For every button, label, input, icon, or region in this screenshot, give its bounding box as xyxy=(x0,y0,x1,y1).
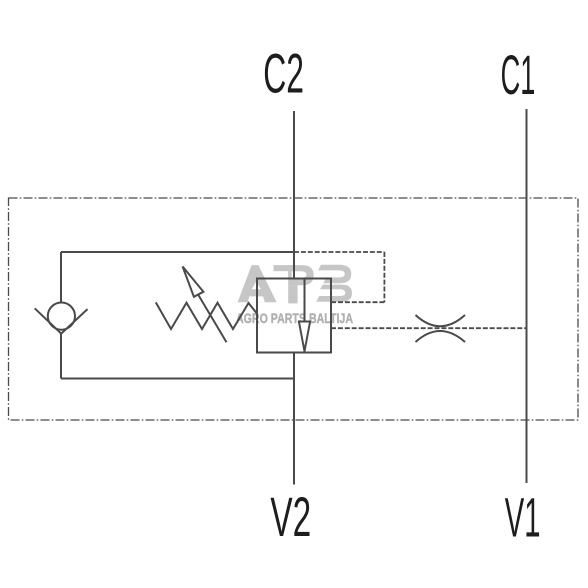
port line C1-V1 xyxy=(526,109,528,483)
poppet arrow stem xyxy=(304,279,306,322)
wire top of check-valve loop xyxy=(61,251,294,253)
pilot line upper horizontal xyxy=(294,251,384,253)
svg-text:AGRO PARTS BALTIJA: AGRO PARTS BALTIJA xyxy=(236,310,353,326)
adjustment arrow head xyxy=(183,267,204,297)
port line C2 xyxy=(293,111,295,279)
watermark AGRO PARTS BALTIJA xyxy=(236,310,353,326)
pilot line vertical xyxy=(383,252,385,302)
pilot line to box xyxy=(331,301,384,303)
pilot line lower horizontal xyxy=(331,327,527,329)
check valve seat xyxy=(35,308,88,333)
wire bottom of check-valve loop xyxy=(61,378,294,380)
svg-text:V1: V1 xyxy=(505,487,541,549)
watermark APB logo xyxy=(238,265,352,304)
adjustment arrow shaft xyxy=(198,295,226,342)
check valve lower stem xyxy=(60,334,62,379)
port line V2 xyxy=(293,353,295,485)
valve body box xyxy=(257,279,331,353)
orifice lower arc xyxy=(416,331,466,342)
poppet arrow head xyxy=(299,322,310,352)
orifice upper arc xyxy=(416,315,466,326)
boundary dash-dot body outline xyxy=(9,198,579,420)
spring xyxy=(156,302,258,329)
check valve upper stem xyxy=(60,252,62,302)
svg-text:C2: C2 xyxy=(263,42,304,104)
svg-text:C1: C1 xyxy=(501,44,536,106)
check valve ball xyxy=(48,303,75,330)
svg-text:V2: V2 xyxy=(270,486,311,548)
